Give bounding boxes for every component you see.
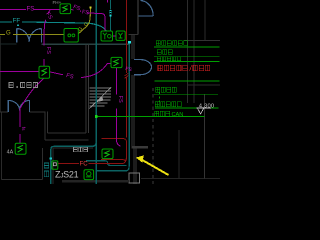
wire from S1 to Y1 drop [71,9,105,30]
annotation text row F [155,102,181,107]
leader line row C [154,60,220,62]
magenta stub top edge [107,0,109,3]
svg-text:G: G [6,31,11,37]
wall mid double vertical b [134,34,136,184]
door D3 top arc [140,1,153,16]
wire vertical to S5 [19,108,21,143]
cyan tick under FF label [17,24,19,26]
device S3 box [111,57,122,67]
device G box glyph circles [68,34,71,37]
wall door post top-right vertical [137,0,139,35]
grid horizontal top right [184,39,221,41]
grid vertical right b [193,0,195,103]
teal drop vertical to box Y1 [110,0,112,31]
junction dot on teal riser [95,115,98,118]
wall stair left double vertical a [85,44,87,133]
red riser vertical [125,0,127,138]
teal branch elbow to left room [51,142,96,184]
wall horizontal under top door [128,33,138,35]
door D3 leaf [139,15,154,17]
device S1 box [60,4,71,14]
door D4 lower leaf [134,74,140,76]
device S4 box [102,149,113,159]
wall bottom-left room right vertical [42,148,44,180]
device Y1 glyph Y and circle [103,33,107,39]
annotation text row G with CAN [155,111,170,116]
grid vertical right c [204,0,206,41]
wire FS branch diagonal to S2 [44,9,50,66]
door D2 double arcs [8,100,29,110]
stair arrowhead [97,96,104,102]
wire FS main horizontal [0,8,60,10]
wall bottom-left room left vertical [1,112,3,180]
leader line row F [155,107,219,109]
teal label FK vertical [44,163,49,177]
wall top horizontal left of door D1 [0,43,17,45]
door D2 left post [7,100,9,112]
svg-text:4.300: 4.300 [199,103,215,109]
svg-text:FS: FS [27,6,35,12]
teal bright dot [110,15,112,17]
annotation text row C [157,57,181,61]
annotation text row B [157,50,172,55]
wall room outer top horizontal [45,139,88,141]
annotation text row E [156,87,177,92]
annotation text row A [156,41,188,46]
device box5 small [52,161,58,169]
room label main [9,83,38,88]
teal top tick of riser2 [128,41,131,44]
wall bar at stair bottom right [132,146,148,148]
wall bottom middle room left vertical [52,148,54,184]
elevation marker [196,108,211,114]
wall horizontal left of door D2 [0,111,8,113]
door D4 upper leaf [134,59,140,61]
device S5 box [15,143,26,154]
wire S2 left horizontal [0,71,39,73]
teal bottom hook [86,161,127,166]
svg-text:FH+: FH+ [53,0,62,5]
grid vertical right a [187,0,189,103]
arrow shaft [142,160,169,175]
yellow end dot [89,7,91,9]
door D1 right post [40,28,42,42]
teal riser main vertical [95,0,97,184]
device Y2 box [116,31,125,40]
device box6 fan [84,170,94,180]
wire Y1-Y2 link [113,35,117,37]
teal riser2 vertical [97,44,129,171]
svg-text:FF: FF [13,18,21,25]
device Y1 box [101,31,113,41]
pseudo CJK text rows (green) [155,41,188,119]
door D1 left post [16,28,18,42]
svg-text:ZJS21: ZJS21 [55,170,79,180]
svg-text:FS: FS [45,47,51,54]
wire FF horizontal [0,22,106,31]
wire S2 curve down to door D2 apex [20,78,44,108]
green dashed tick vertical [158,93,160,103]
stair diagonal cut line [89,87,111,108]
wall mid double vertical a [132,34,134,184]
device Y2 glyph wine-Y [118,33,122,38]
wall bottom middle room top [53,147,93,149]
wire G horizontal [0,33,64,35]
svg-text:FS: FS [81,9,89,16]
wall bottom-left room bottom [2,179,43,181]
stair treads [90,88,112,106]
svg-text:FC: FC [80,161,89,167]
wall left room double vertical b [47,112,49,133]
teal break squiggle [109,11,112,14]
teal bright tick near box5 [50,157,52,159]
red branch T horizontal [58,139,127,164]
door D2 right post [29,100,31,112]
wall top horizontal right of door D1 [41,43,128,45]
wall room inner top horizontal [48,132,87,134]
wire S2 to S3 polyline [50,64,111,78]
wall stair left double vertical b [88,44,90,133]
svg-text:4A: 4A [7,149,14,155]
wall horizontal right of door D2 [30,111,46,113]
wall left outer vertical [0,36,2,112]
leader line row G long [96,115,204,117]
device G box [64,29,78,43]
svg-text:FS: FS [117,96,123,103]
room label pool [74,147,88,151]
grid horizontal right mid [188,84,220,86]
leader line row B [154,56,220,58]
wire S3 bottom vertical [116,68,120,147]
wall left room double vertical a [44,112,46,140]
leader line row A [154,46,220,48]
red break symbol [125,73,129,78]
leader line row E [154,93,218,95]
wall bottom dark band [62,180,129,182]
wall right vertical at x179 [178,130,180,178]
dashed vertical line [152,88,154,184]
leader line row D [154,80,219,82]
door D4 arcs [141,60,152,75]
door D1 double arcs [17,29,42,42]
device S2 box [39,66,50,78]
red return line [101,160,126,162]
small square bottom [129,173,139,183]
arrow head [136,155,144,162]
svg-text:CAN: CAN [172,112,184,118]
wall bottom outer horizontal right [141,177,220,179]
grid vertical bottom right long [203,94,205,178]
annotation text row D (red) [158,65,210,70]
wire G diagonal up from box [78,8,90,34]
